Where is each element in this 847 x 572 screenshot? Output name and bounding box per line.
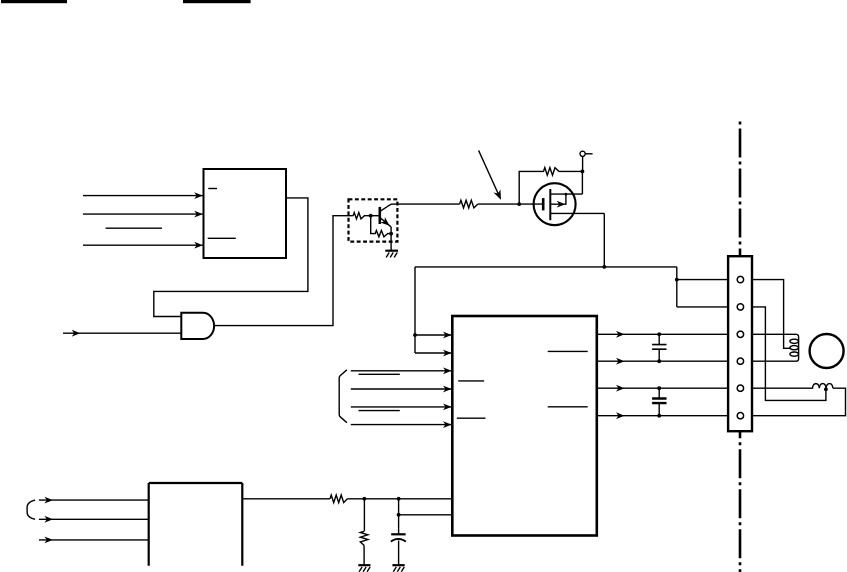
pin 3 bbox=[737, 331, 743, 337]
ground GND2 bbox=[358, 564, 370, 566]
annotation arrow bbox=[479, 150, 499, 195]
wire U3 output 1 bbox=[597, 333, 728, 335]
node R6 right junction bbox=[581, 170, 585, 174]
wire U3 input 3 bbox=[351, 370, 452, 372]
resistor R6 bbox=[519, 168, 582, 205]
wire bus right drop bbox=[677, 267, 728, 307]
wire U4 output bbox=[242, 498, 330, 500]
optocoupler dashed box U2 bbox=[349, 199, 398, 241]
inductor L2 bbox=[752, 384, 833, 389]
node pin1 junction bbox=[675, 278, 679, 282]
ground GND1 bbox=[385, 250, 398, 252]
wire U3 input 6 bbox=[351, 424, 452, 426]
wire U3 output 2 bbox=[597, 360, 728, 362]
capacitor C2 bbox=[652, 386, 666, 417]
U3 label dash right 2 bbox=[548, 406, 588, 408]
axis line lower bbox=[739, 431, 742, 572]
axis line upper bbox=[739, 122, 742, 257]
U3 label dash left 2 bbox=[457, 417, 486, 419]
wire U3 output 4 bbox=[597, 415, 728, 417]
terminal T1 bbox=[580, 151, 585, 156]
wire U3 input 5 bbox=[351, 406, 452, 408]
box U4 bbox=[149, 483, 243, 566]
wire T1 to drain bbox=[581, 156, 583, 194]
wire U1 input 2 bbox=[83, 213, 203, 215]
wire base bbox=[371, 215, 379, 217]
wire emitter down bbox=[390, 227, 392, 251]
connector J1 bbox=[728, 256, 752, 431]
wire U3 input 4 bbox=[351, 388, 452, 390]
U3 label dash right 1 bbox=[548, 350, 588, 352]
wire R5 to gate bbox=[478, 203, 543, 205]
input bracket small bbox=[27, 500, 35, 519]
wire U4 input 2 bbox=[39, 518, 149, 520]
pin 1 bbox=[737, 276, 743, 282]
pin 5 bbox=[737, 385, 743, 391]
node C3 branch junction bbox=[397, 513, 401, 517]
wire R7 to U3 bbox=[347, 498, 452, 500]
resistor R8 bbox=[360, 499, 368, 565]
U1 label dash 1 bbox=[208, 188, 217, 190]
wire pin2 to L2 tap bbox=[752, 307, 826, 401]
ground GND3 bbox=[392, 564, 404, 566]
wire U1 input 3 bbox=[83, 244, 203, 246]
pin 2 bbox=[737, 304, 743, 310]
resistor R4 bbox=[371, 216, 391, 237]
pin 4 bbox=[737, 358, 743, 364]
wire C3 branch bbox=[399, 499, 453, 535]
transistor Q1 bbox=[378, 207, 381, 224]
node L2 tap junction bbox=[824, 387, 828, 391]
capacitor C3 bbox=[391, 534, 406, 565]
wire G1 output bbox=[214, 216, 353, 326]
wire U1 input 1 bbox=[83, 195, 203, 197]
U3 label dash left 1 bbox=[458, 380, 484, 382]
wire pin1 to L1 tap bbox=[752, 280, 791, 349]
resistor R7 bbox=[330, 495, 347, 503]
box U1 bbox=[204, 169, 287, 258]
wire U4 input 3 bbox=[39, 539, 149, 541]
inductor L1 bbox=[752, 334, 799, 361]
wire source down bbox=[603, 213, 605, 267]
label line bbox=[106, 227, 162, 229]
capacitor C1 bbox=[652, 332, 666, 363]
wire U1 output to AND gate bbox=[154, 198, 308, 317]
wire bus left drop bbox=[415, 267, 452, 353]
wire G1 input arrow bbox=[63, 332, 181, 334]
node bus junction bbox=[602, 265, 606, 269]
wire U4 input 1 bbox=[39, 499, 149, 501]
label underline 2 bbox=[359, 410, 400, 412]
node C3 junction bbox=[397, 497, 401, 501]
label underline 1 bbox=[359, 373, 400, 375]
and-gate G1 bbox=[181, 313, 214, 339]
mosfet Q2 bbox=[534, 183, 605, 225]
pin 6 bbox=[737, 413, 743, 419]
wire pin6 to L2 bbox=[752, 388, 846, 416]
U1 label dash 2 bbox=[208, 237, 236, 239]
node emitter junction bbox=[389, 232, 393, 236]
motor M1 bbox=[810, 334, 844, 368]
input bracket bbox=[339, 370, 347, 423]
node bus left junction bbox=[413, 333, 417, 337]
wire bus bbox=[415, 266, 677, 268]
IC box U3 bbox=[452, 316, 597, 536]
node R8 junction bbox=[363, 497, 367, 501]
wire collector out bbox=[391, 203, 460, 205]
redaction bar 2 bbox=[183, 0, 251, 3]
wire U3 output 3 bbox=[597, 387, 728, 389]
resistor R3 bbox=[353, 213, 371, 219]
redaction bar 1 bbox=[1, 0, 67, 3]
resistor R5 bbox=[460, 200, 478, 208]
node gate junction bbox=[517, 202, 521, 206]
node base junction bbox=[369, 214, 373, 218]
